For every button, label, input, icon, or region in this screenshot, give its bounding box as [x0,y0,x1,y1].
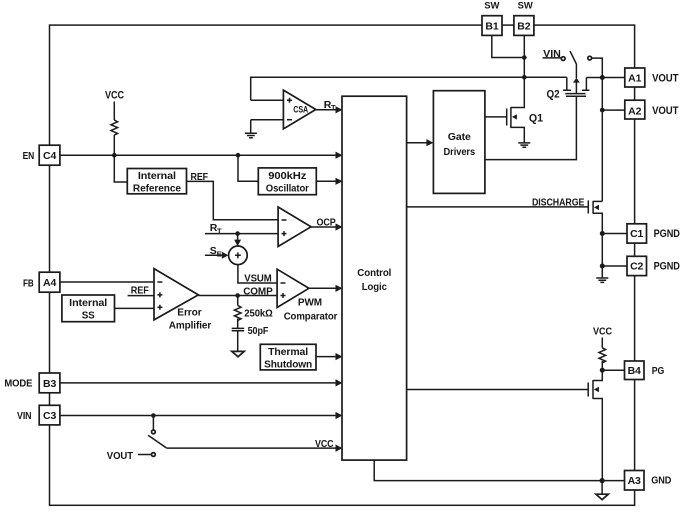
wire: VOUT vertical down to discharge FET [601,78,603,202]
svg-text:C4: C4 [43,150,56,162]
svg-text:Gate: Gate [448,131,471,143]
svg-text:C3: C3 [43,410,56,422]
label RT (CSA output) [324,99,336,112]
svg-text:C2: C2 [630,260,643,272]
svg-text:PGND: PGND [654,260,680,272]
IC outer border [50,25,635,505]
svg-text:A4: A4 [43,277,56,289]
pin C2 [627,256,647,275]
wire+arrow: RT junction down into summing circle [234,234,241,247]
op-amp CSA [283,90,315,129]
svg-text:VOUT: VOUT [652,105,679,117]
wire: PG source down to GND rail [593,399,602,481]
wire: SW rail down to Q1 drain [511,77,524,107]
svg-text:Logic: Logic [362,281,387,293]
wire: blade to Q2 body arrow [575,64,577,78]
node: EN/oscillator junction [236,153,241,158]
svg-text:SW: SW [484,0,500,10]
node: C1 junction [600,231,605,236]
wire: CSA output to Control Logic [316,106,343,113]
pin B4 [625,361,645,380]
svg-text:CSA: CSA [293,104,308,115]
svg-text:C1: C1 [630,228,643,240]
svg-text:MODE: MODE [4,378,32,390]
svg-text:B2: B2 [517,20,530,32]
block: Thermal Shutdown [260,344,316,370]
svg-text:VOUT: VOUT [652,72,679,84]
wire: resistor to capacitor [237,319,239,329]
wire: resistor to B4 junction [601,361,603,370]
wire: VOUT rail to A1 [586,77,624,79]
node: A2 junction [600,108,605,113]
wire: Q2 body arrow to channel [575,82,577,93]
switch blade (VCC source select) [148,435,167,448]
op-amp OCP comparator [278,207,311,247]
switch contact circle (second) [588,56,592,60]
svg-text:B4: B4 [628,365,641,377]
svg-text:VIN: VIN [17,410,32,422]
node: B4 junction [600,368,605,373]
wire+arrow: Control Logic to Gate Drivers [407,139,434,146]
svg-text:E: E [217,249,222,258]
wire: EN junction down to Internal Reference input [114,155,127,182]
pin A3 [625,471,645,491]
wire: oscillator output to Control Logic [316,178,342,185]
wire: CSA - input to ground [250,120,252,133]
wire: Error Amplifier output to PWM + input (COMP) [198,295,277,297]
node: VIN/switch junction [151,413,156,418]
block: Gate Drivers [433,91,485,194]
svg-text:A3: A3 [628,475,641,487]
svg-text:VCC: VCC [593,326,612,338]
node: SW rail / B2 junction [522,75,527,80]
wire: C1 stub [602,233,627,235]
svg-text:VSUM: VSUM [244,272,272,284]
svg-text:SW: SW [518,0,534,10]
wire: C2 stub [602,265,627,267]
wire: Q1 source to ground [511,127,524,142]
svg-text:SS: SS [82,310,95,322]
wire: OCP output to Control Logic [311,223,343,230]
svg-text:GND: GND [651,475,671,487]
svg-text:250kΩ: 250kΩ [244,307,272,319]
pin B1 [482,16,502,36]
ground (under C2 junction) [596,278,608,282]
svg-text:Drivers: Drivers [444,146,476,158]
op-amp PWM comparator [277,269,337,323]
label SE [210,245,222,258]
svg-text:Q1: Q1 [529,112,543,124]
wire: PG gate from Control Logic [407,389,589,391]
svg-text:Comparator: Comparator [284,311,338,323]
wire: GND junction to ground symbol [601,481,603,494]
wire: COMP junction down to resistor [237,296,239,306]
svg-text:Error: Error [177,307,201,319]
svg-text:50pF: 50pF [248,325,269,337]
svg-text:EN: EN [23,150,35,162]
wire: second contact to VOUT vertical [592,58,603,77]
wire: Thermal Shutdown to Control Logic [316,353,343,360]
wire: SW rail to Q2 left plate [566,77,568,89]
wire: CSA + input up to SW rail [251,77,567,100]
svg-text:900kHz: 900kHz [268,170,306,182]
wire: EN line from C4 to Control Logic [60,152,343,159]
resistor 250kΩ [234,305,241,320]
wire: Internal SS to Error Amplifier lower + input [115,307,155,309]
svg-text:A1: A1 [628,72,641,84]
transistor: discharge FET [588,200,599,213]
switch contact circle (VIN) [561,57,565,61]
wire: REF from Internal Reference to OCP minus input [187,181,279,219]
wire: VCC to resistor [113,102,115,121]
svg-text:Thermal: Thermal [268,346,308,358]
svg-text:VCC: VCC [105,90,124,102]
transistor: PG FET [588,380,599,399]
Q2 body arrow [573,78,580,83]
svg-text:PWM: PWM [298,297,322,309]
svg-text:B3: B3 [43,378,56,390]
svg-text:VOUT: VOUT [107,450,134,462]
pin C3 [39,405,60,425]
transistor Q2 (load switch) [547,89,590,101]
wire: VIN junction down to switch contact [152,416,154,431]
wire: CSA + input stub [251,99,284,101]
pin A2 [625,100,645,119]
node: B1/B2 jumper junction [522,55,527,60]
wire: FB from A4 to Error Amplifier - input [60,281,154,283]
node: EN/VCC-resistor junction [112,153,117,158]
resistor (PG pull-up) [599,348,606,363]
node: GND junction [600,478,605,483]
wire+arrow: SE into summing circle [205,252,229,259]
svg-text:T: T [331,103,336,112]
switch contact circle (VIN side) [152,430,156,434]
wire: Control Logic bottom to GND rail [374,460,624,481]
switch blade (VIN to Q2 body) [570,51,576,64]
svg-text:Control: Control [357,267,391,279]
svg-text:Oscillator: Oscillator [266,182,309,194]
svg-text:Internal: Internal [69,297,107,309]
pin C4 [39,145,60,165]
ground (open triangle, under A3) [596,494,608,499]
wire: PG drain stub up to B4 junction [593,370,602,380]
wire: VIN from C3 to Control Logic [60,412,343,419]
wire: discharge source to C1/C2/ground [593,213,602,277]
block: Internal SS [62,295,115,322]
transistor Q1 [507,107,543,128]
block: Internal Reference [127,169,186,195]
svg-text:Internal: Internal [138,170,176,182]
ground (under CSA - input) [245,133,257,137]
node: COMP junction [235,293,240,298]
pin A4 [39,272,60,292]
pin A1 [625,68,645,87]
capacitor 50pF [232,328,245,330]
wire: discharge gate from Control Logic [407,206,589,208]
node: VOUT/A1 junction [600,75,605,80]
op-amp Error Amplifier [154,269,211,332]
wire: discharge drain stub [593,200,602,202]
pin C1 [627,224,647,243]
wire: Q2 gate down to Gate Drivers [485,96,577,159]
wire: VIN label underline stub [543,57,562,59]
wire: PWM output to Control Logic [309,285,343,292]
wire: RT to OCP + input [205,233,278,235]
wire: VOUT stub dash [138,454,151,456]
wire: resistor to EN junction [113,135,115,155]
wire: summing circle output to PWM - input (VSUM) [238,265,277,283]
svg-text:PG: PG [652,365,665,377]
wire: switch to Control Logic VCC input [167,445,343,452]
wire: A2 stub [602,109,625,111]
wire: Q1 gate from Gate Drivers [485,116,507,118]
ground (under Q1) [518,143,530,147]
wire: REF stub into Error Amplifier [128,295,154,297]
ground (open triangle, under 50pF) [232,351,244,356]
summing junction circle [229,246,248,265]
switch contact circle (VOUT side) [152,453,156,457]
node: C2 junction [600,264,605,269]
svg-text:Amplifier: Amplifier [169,319,211,331]
block: Control Logic [342,96,407,460]
wire: VCC to PG resistor [601,338,603,348]
svg-text:FB: FB [23,277,34,289]
block: 900kHz Oscillator [258,168,316,195]
svg-text:B1: B1 [485,20,498,32]
wire: B4 stub [602,369,624,371]
wire: EN junction down to oscillator input [238,155,258,181]
label RT (OCP + input) [210,222,222,235]
wire: B1 down to SW jumper [492,35,525,57]
wire: B2 down to SW rail [523,35,525,77]
svg-text:Reference: Reference [133,182,181,194]
pin B3 [39,373,60,393]
wire: Q2 right plate to VOUT rail [585,78,587,90]
svg-text:Q2: Q2 [547,89,560,101]
wire: capacitor to ground [237,331,239,351]
wire: MODE from B3 to Control Logic [60,379,343,386]
svg-text:Shutdown: Shutdown [264,359,312,371]
wire: CSA - input stub [251,119,284,121]
resistor R-VCC (pull-up near EN) [111,120,118,135]
svg-text:PGND: PGND [654,228,680,240]
node: RT / summing junction [235,231,240,236]
svg-text:A2: A2 [628,105,641,117]
pin B2 [514,16,534,36]
